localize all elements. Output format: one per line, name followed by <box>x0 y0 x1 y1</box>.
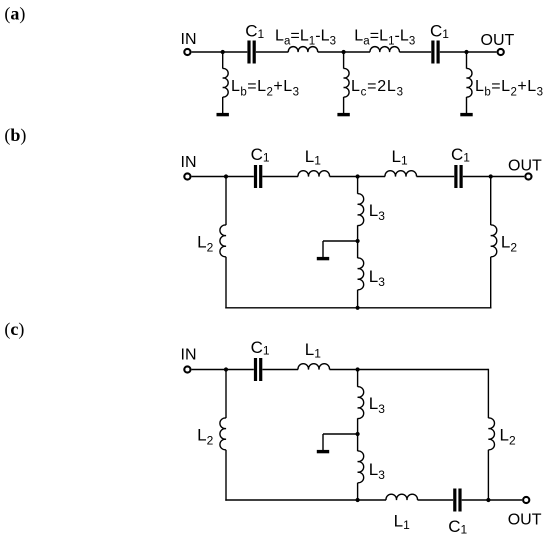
label L1 (c, bottom) <box>394 512 410 533</box>
node IN (a) label <box>181 31 197 48</box>
inductor L1 (c, top) <box>298 364 330 370</box>
label C1 (a, left) <box>245 22 264 42</box>
ground (b) <box>317 257 329 260</box>
wire La2 to C1b (a) <box>399 51 431 53</box>
wire shunt 1 upper (a) <box>222 52 224 69</box>
node OUT (b) label <box>508 157 542 174</box>
inductor L1 (b, right) <box>385 171 417 177</box>
label Lc=2L3 (a) <box>351 78 403 99</box>
wire shunt 3 lower (a) <box>466 97 468 113</box>
wire ground arm vertical (c) <box>322 434 324 450</box>
node OUT (c) label <box>508 511 542 528</box>
wire middle branch bottom (b) <box>357 290 359 308</box>
svg-text:OUT: OUT <box>508 157 542 174</box>
node junction B5 (bottom) <box>356 306 360 310</box>
label L2 (c, right) <box>500 425 516 447</box>
wire right branch upper (b) <box>490 177 492 226</box>
wire bottom rail left (c) <box>225 499 386 501</box>
wire right branch lower (c) <box>487 450 489 500</box>
label L2 (b, right) <box>501 232 517 254</box>
label Lb=L2+L3 (a, right) <box>475 78 543 99</box>
svg-text:(c): (c) <box>4 319 24 340</box>
wire L1 to top-right corner (c) <box>330 369 489 371</box>
inductor L2 (c, left) <box>220 418 226 450</box>
figure label (c) <box>4 319 24 340</box>
terminal OUT (b) <box>525 173 531 179</box>
capacitor C1 (c, bottom) <box>453 489 461 512</box>
wire shunt 2 lower (a) <box>343 97 345 113</box>
wire La1 to La2 (a) <box>318 51 370 53</box>
wire ground arm vertical (b) <box>322 241 324 257</box>
inductor La1 (a) <box>288 47 317 52</box>
capacitor C1 (b, right) <box>454 165 462 188</box>
label L2 (b, left) <box>197 232 213 254</box>
inductor L1 (b, left) <box>298 171 330 177</box>
label L3 (c, upper) <box>369 394 385 416</box>
wire middle branch bottom (c) <box>357 483 359 500</box>
svg-text:IN: IN <box>181 154 197 171</box>
wire left branch upper (b) <box>225 177 227 226</box>
node junction C5j (bottom right) <box>486 498 490 502</box>
node junction C1j <box>224 367 228 371</box>
label C1 (c, bottom) <box>448 517 467 537</box>
label C1 (b, right) <box>451 145 470 165</box>
wire C1b to OUT (a) <box>440 51 497 53</box>
wire left branch upper (c) <box>225 370 227 419</box>
wire C1 to L1 (b) <box>262 176 298 178</box>
svg-text:OUT: OUT <box>508 511 542 528</box>
node IN (b) label <box>181 154 197 171</box>
terminal OUT (a) <box>498 49 504 55</box>
terminal IN (a) <box>184 49 190 55</box>
wire ground arm horizontal (c) <box>323 433 358 435</box>
inductor Lc (a) <box>344 68 349 97</box>
figure label (b) <box>4 125 26 146</box>
capacitor C1 (a, right) <box>431 41 439 64</box>
label La=L1-L3 (a, right) <box>354 27 415 47</box>
svg-text:IN: IN <box>181 346 197 363</box>
wire left branch lower (b) <box>225 257 227 309</box>
wire right branch lower (b) <box>490 257 492 309</box>
svg-text:(a): (a) <box>4 3 25 24</box>
node junction C4j (bottom middle) <box>356 498 360 502</box>
wire middle branch mid (b) <box>357 225 359 258</box>
inductor La2 (a) <box>370 47 399 52</box>
label La=L1-L3 (a, left) <box>275 27 336 47</box>
capacitor C1 (a, left) <box>247 41 255 64</box>
node junction A1 <box>221 50 225 54</box>
inductor L3 (c, upper) <box>358 387 364 419</box>
wire C1 to La1 (a) <box>256 51 289 53</box>
capacitor C1 (c, top) <box>254 358 262 381</box>
inductor L2 (b, right) <box>491 225 497 257</box>
node junction B3 <box>489 174 493 178</box>
wire ground arm horizontal (b) <box>323 240 358 242</box>
label C1 (a, right) <box>430 22 449 42</box>
inductor L3 (c, lower) <box>358 451 364 483</box>
node junction B2 <box>356 174 360 178</box>
inductor Lb2 (a) <box>467 68 472 97</box>
node junction C3j (ground tap) <box>356 432 360 436</box>
wire bottom rail (b) <box>225 307 491 309</box>
ground (a, middle) <box>337 113 349 116</box>
label C1 (b, left) <box>251 145 270 165</box>
wire middle branch mid (c) <box>357 418 359 451</box>
wire C1 to OUT (c) <box>462 499 522 501</box>
inductor L1 (c, bottom) <box>386 494 418 500</box>
wire middle branch top (c) <box>357 370 359 387</box>
svg-text:OUT: OUT <box>481 32 515 49</box>
terminal IN (b) <box>184 173 190 179</box>
wire shunt 2 upper (a) <box>343 52 345 69</box>
inductor L2 (c, right) <box>488 418 494 450</box>
wire IN to C1 (c) <box>192 369 254 371</box>
capacitor C1 (b, left) <box>254 165 262 188</box>
ground (a, right) <box>460 113 472 116</box>
inductor L3 (b, lower) <box>358 258 364 290</box>
wire IN to C1 (a) <box>192 51 248 53</box>
node junction A2 <box>342 50 346 54</box>
wire IN to C1 (b) <box>192 176 254 178</box>
label Lb=L2+L3 (a, left) <box>231 78 299 99</box>
label L1 (c, top) <box>305 340 321 361</box>
node OUT (a) label <box>481 32 515 49</box>
node junction B4 (ground tap) <box>356 239 360 243</box>
wire middle branch top (b) <box>357 177 359 194</box>
label L3 (b, upper) <box>369 201 385 223</box>
svg-text:IN: IN <box>181 31 197 48</box>
wire L1 to L1 (b) <box>330 176 386 178</box>
figure label (a) <box>4 3 25 24</box>
terminal OUT (c) <box>523 497 529 503</box>
wire C1 to OUT (b) <box>463 176 524 178</box>
node junction C2j <box>356 367 360 371</box>
wire right branch upper (c) <box>487 369 489 418</box>
wire C1 to L1 (c) <box>262 369 298 371</box>
wire shunt 1 lower (a) <box>222 97 224 113</box>
node junction B1 <box>224 174 228 178</box>
inductor L3 (b, upper) <box>358 194 364 226</box>
label L2 (c, left) <box>197 425 213 447</box>
inductor Lb1 (a) <box>223 68 228 97</box>
wire L1 to C1 (c, bottom) <box>418 499 454 501</box>
terminal IN (c) <box>184 366 190 372</box>
wire shunt 3 upper (a) <box>466 52 468 69</box>
wire L1 to C1 (b, right) <box>417 176 455 178</box>
node junction A3 <box>464 50 468 54</box>
ground (c) <box>317 450 329 453</box>
inductor L2 (b, left) <box>220 225 226 257</box>
label L1 (b, left) <box>305 147 321 168</box>
node IN (c) label <box>181 346 197 363</box>
svg-text:(b): (b) <box>4 125 26 146</box>
label L1 (b, right) <box>392 147 408 168</box>
ground (a, left) <box>217 113 229 116</box>
label L3 (c, lower) <box>369 460 385 482</box>
wire left branch lower (c) <box>225 450 227 501</box>
label C1 (c, top) <box>251 338 270 358</box>
label L3 (b, lower) <box>369 267 385 289</box>
